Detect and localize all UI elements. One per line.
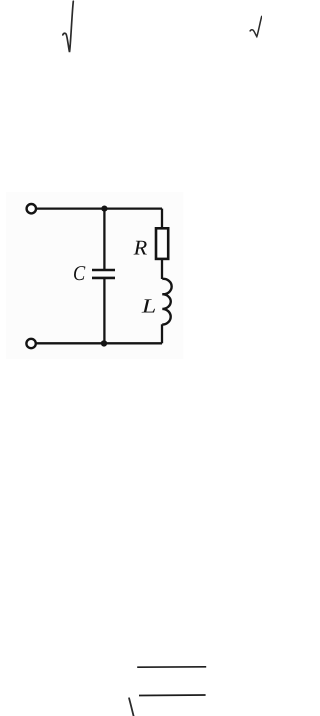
wire: right branch to resistor bbox=[161, 209, 163, 229]
svg-text:C: C bbox=[73, 261, 86, 285]
wire: resistor to inductor bbox=[161, 259, 163, 279]
svg-text:L: L bbox=[141, 295, 157, 317]
checkmark (top right) bbox=[250, 16, 262, 36]
resistor R body bbox=[156, 228, 168, 259]
terminal (bottom left, open circle) bbox=[26, 339, 35, 348]
scanned-image background bbox=[6, 192, 184, 359]
fraction bar 2 (bottom) bbox=[139, 694, 206, 697]
wire: top horizontal bbox=[37, 207, 162, 209]
pen stroke (bottom left slash) bbox=[129, 698, 134, 716]
inductor L coils bbox=[162, 279, 171, 325]
wire: capacitor branch lower bbox=[103, 279, 105, 343]
svg-text:R: R bbox=[133, 235, 148, 259]
capacitor C plates bbox=[92, 269, 115, 272]
wire: inductor to bottom bbox=[161, 324, 163, 343]
wire: bottom horizontal bbox=[37, 342, 162, 344]
wire: capacitor branch upper bbox=[103, 209, 105, 269]
node: bottom junction dot bbox=[101, 340, 107, 346]
terminal (top left, open circle) bbox=[27, 204, 36, 213]
fraction bar 1 (bottom) bbox=[137, 666, 206, 668]
checkmark (top left) bbox=[63, 1, 74, 52]
node: top junction dot bbox=[101, 206, 107, 212]
